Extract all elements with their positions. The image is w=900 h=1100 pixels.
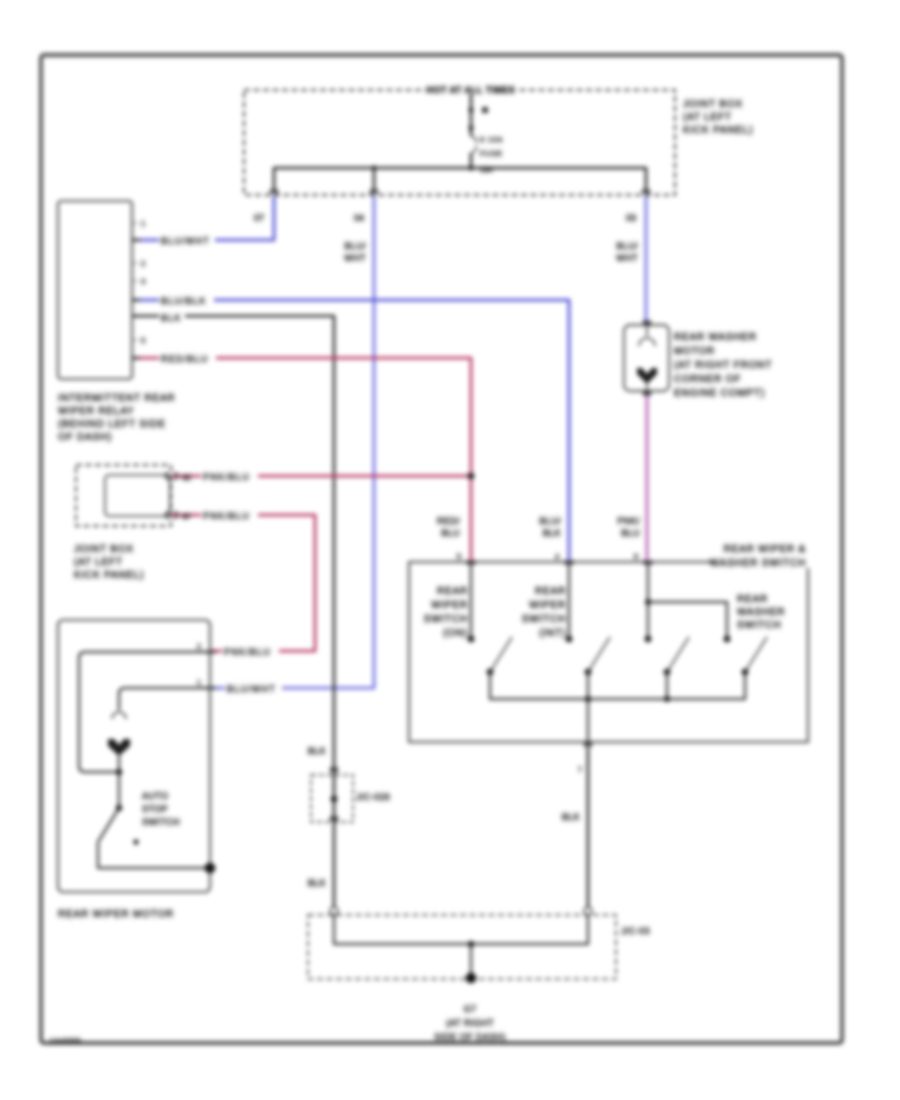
J/C-03 junction node: [468, 941, 474, 947]
bus junction nodes: [585, 696, 591, 702]
connector switch pin 2: [566, 560, 573, 565]
junction node bus/fuse: [468, 165, 473, 170]
svg-text:PNK/BLU: PNK/BLU: [203, 472, 250, 482]
svg-text:(INT): (INT): [539, 628, 566, 639]
svg-text:RED/BLU: RED/BLU: [161, 354, 208, 364]
wire PNK washer motor to switch: [646, 394, 649, 562]
svg-text:BLU: BLU: [621, 528, 640, 538]
J/C-03 dashed box: [308, 915, 616, 979]
svg-text:JOINT BOX: JOINT BOX: [74, 544, 134, 555]
svg-text:SIDE OF DASH): SIDE OF DASH): [434, 1032, 506, 1042]
svg-text:WIPER: WIPER: [529, 600, 566, 611]
svg-text:04: 04: [354, 213, 364, 223]
label BLK on relay wire: [159, 311, 185, 323]
rear wiper and washer switch box: [409, 562, 808, 742]
wire BLU/WHT main vertical to wiper motor: [210, 196, 374, 688]
svg-text:03: 03: [626, 213, 636, 223]
svg-text:SWITCH: SWITCH: [142, 817, 180, 827]
svg-text:REAR WIPER &: REAR WIPER &: [724, 544, 806, 555]
svg-text:WHT: WHT: [344, 253, 366, 263]
svg-text:6F: 6F: [182, 512, 191, 521]
switch internal wires: [471, 562, 727, 639]
svg-text:PNK/: PNK/: [617, 516, 640, 526]
wire RED/BLU from relay to switch: [132, 358, 471, 562]
wire: fuse feed vertical: [470, 94, 473, 168]
svg-text:REAR: REAR: [535, 586, 566, 597]
svg-text:BLU: BLU: [441, 528, 460, 538]
label BLU/WHT on relay wire: [159, 234, 215, 246]
connector switch pin 1: [468, 560, 475, 565]
svg-text:(ON): (ON): [443, 628, 468, 639]
svg-text:REAR WASHER: REAR WASHER: [674, 332, 757, 343]
svg-text:1: 1: [141, 219, 145, 228]
svg-text:BLK: BLK: [308, 746, 326, 756]
joint box J/B top (dashed, at left kick panel): [244, 90, 675, 195]
auto stop open contact: [133, 839, 138, 844]
svg-text:MOTOR: MOTOR: [674, 346, 715, 357]
svg-text:2: 2: [141, 259, 145, 268]
svg-text:8 10A: 8 10A: [480, 137, 503, 144]
connector at joint box pin 07: [271, 189, 278, 194]
connector at joint box pin 03: [643, 189, 650, 194]
connector joint box 2 pin A: [166, 473, 178, 480]
wire BLU/BLK relay to switch: [132, 300, 569, 562]
motor pin ticks: [205, 652, 216, 688]
connector joint box 2 pin B: [166, 512, 178, 519]
J/C-026 node: [331, 796, 338, 803]
svg-text:4: 4: [555, 552, 559, 561]
svg-text:WASHER SWITCH: WASHER SWITCH: [710, 558, 806, 569]
intermittent rear wiper relay box: [58, 201, 132, 379]
svg-text:KICK PANEL): KICK PANEL): [74, 570, 144, 581]
connector at joint box pin 04: [371, 189, 378, 194]
svg-text:PNK/BLU: PNK/BLU: [224, 647, 271, 657]
junction node RED/BLU / PNK branch: [468, 473, 475, 480]
svg-text:BLU/: BLU/: [616, 241, 638, 251]
motor case ground node: [205, 863, 216, 874]
svg-text:(AT RIGHT FRONT: (AT RIGHT FRONT: [674, 360, 772, 371]
svg-text:(AT RIGHT: (AT RIGHT: [446, 1018, 494, 1028]
connector switch pin 3: [645, 560, 652, 565]
svg-text:SWITCH: SWITCH: [737, 620, 781, 631]
svg-text:(AT LEFT: (AT LEFT: [74, 557, 123, 568]
svg-text:J/C-026: J/C-026: [356, 792, 390, 802]
node motor/park junction: [116, 769, 122, 775]
switch blades: [490, 637, 767, 672]
svg-text:G7: G7: [464, 1004, 477, 1014]
svg-text:2: 2: [197, 642, 201, 651]
svg-text:3: 3: [141, 277, 145, 286]
svg-text:WASHER: WASHER: [737, 607, 785, 618]
connector washer motor bottom: [644, 391, 651, 396]
J/C-026 dashed box: [311, 775, 353, 822]
svg-text:SWITCH: SWITCH: [424, 614, 468, 625]
svg-text:6: 6: [634, 552, 638, 561]
page border frame: [41, 55, 842, 1043]
joint box 2 inner bus box: [105, 475, 170, 516]
label BLU/WHT on motor feed wire: [225, 682, 282, 694]
svg-text:J/C-03: J/C-03: [621, 926, 650, 936]
svg-text:AUTO: AUTO: [142, 791, 168, 801]
node on feed wire 2: [468, 125, 473, 130]
washer branch junction: [645, 599, 651, 605]
svg-text:6E: 6E: [182, 473, 191, 482]
wire BLU/WHT relay to joint box: [132, 196, 274, 240]
svg-text:RED/: RED/: [437, 516, 460, 526]
connector washer motor top: [644, 320, 651, 325]
label RED/BLU on relay wire: [159, 352, 216, 364]
relay pin ticks: [132, 240, 140, 358]
svg-text:WIPER RELAY: WIPER RELAY: [58, 406, 134, 417]
svg-text:BLU/: BLU/: [344, 241, 366, 251]
svg-text:(AT LEFT: (AT LEFT: [683, 112, 732, 123]
svg-text:WIPER: WIPER: [431, 600, 468, 611]
ground terminal node G7: [466, 973, 477, 984]
blade terminals: [487, 669, 494, 676]
auto stop switch blade: [98, 808, 210, 868]
svg-text:REAR: REAR: [737, 594, 768, 605]
rear wiper motor box: [58, 620, 210, 892]
switch box label: [710, 540, 810, 569]
svg-text:5: 5: [457, 552, 461, 561]
motor internal park feed path: [79, 652, 210, 772]
svg-text:INTERMITTENT REAR: INTERMITTENT REAR: [58, 393, 175, 404]
svg-text:BLU/WHT: BLU/WHT: [227, 684, 276, 694]
svg-text:HOT AT ALL TIMES: HOT AT ALL TIMES: [427, 85, 515, 95]
svg-text:BLU/BLK: BLU/BLK: [161, 296, 206, 306]
label BLU/BLK on relay wire: [159, 294, 214, 306]
svg-text:FUSE: FUSE: [480, 151, 503, 158]
svg-text:REAR: REAR: [437, 586, 468, 597]
wire: bus inside joint box: [274, 168, 646, 190]
connector switch output: [585, 742, 592, 747]
motor connector chevron: [112, 712, 126, 719]
svg-text:SWITCH: SWITCH: [522, 614, 566, 625]
svg-text:OF DASH): OF DASH): [58, 432, 112, 443]
wire PNK/BLU joint box branch A: [171, 475, 471, 478]
motor internal run path: [119, 688, 210, 808]
switch common bus: [490, 672, 745, 742]
wire BLK switch to J/C-03: [587, 747, 590, 908]
svg-text:KICK PANEL): KICK PANEL): [683, 125, 753, 136]
wire BLU/WHT to rear washer motor: [645, 196, 648, 322]
label PNK/BLU on motor feed wire: [222, 645, 279, 657]
connector J/C-026 top: [331, 767, 338, 772]
fuse F8 symbol: [471, 136, 476, 153]
switch contacts: [468, 636, 475, 643]
svg-text:(BEHIND LEFT SIDE: (BEHIND LEFT SIDE: [58, 419, 166, 430]
svg-text:BLK: BLK: [308, 878, 326, 888]
svg-text:BLK: BLK: [562, 812, 580, 822]
svg-text:ENGINE COMPT): ENGINE COMPT): [674, 388, 765, 399]
washer motor internals: [646, 325, 648, 391]
joint box 2 dashed: [76, 465, 171, 526]
svg-text:BLU/WHT: BLU/WHT: [161, 236, 210, 246]
svg-text:1A4069: 1A4069: [50, 1038, 81, 1045]
connector J/C-026 bottom: [331, 816, 338, 821]
connector ring J/C-03 right: [584, 907, 592, 915]
label HOT AT ALL TIMES: [426, 83, 516, 96]
svg-text:07: 07: [254, 213, 264, 223]
J/C-03 internal wires: [334, 915, 588, 978]
node on feed wire: [468, 107, 473, 112]
wire BLK from relay down to J/C-03: [132, 316, 334, 908]
svg-text:PNK/BLU: PNK/BLU: [203, 511, 250, 521]
junction node bus/left drop: [371, 165, 376, 170]
connector ring J/C-03 left: [330, 907, 338, 915]
svg-text:5: 5: [141, 336, 145, 345]
svg-text:1: 1: [197, 678, 201, 687]
svg-text:CORNER OF: CORNER OF: [674, 374, 741, 385]
washer motor M symbol: [637, 368, 657, 384]
node auto stop common: [116, 805, 122, 811]
svg-text:REAR WIPER MOTOR: REAR WIPER MOTOR: [58, 909, 174, 920]
svg-text:BLU/: BLU/: [539, 516, 561, 526]
svg-text:STOP: STOP: [142, 804, 168, 814]
wiper motor M symbol: [108, 739, 130, 756]
svg-text:JOINT BOX: JOINT BOX: [683, 99, 743, 110]
svg-text:BLK: BLK: [161, 313, 182, 323]
tap mark beside node: [482, 107, 488, 113]
svg-text:BLK: BLK: [543, 528, 561, 538]
svg-text:7: 7: [578, 765, 582, 774]
wire PNK/BLU joint box branch B to wiper motor: [171, 515, 315, 651]
rear washer motor box: [624, 325, 669, 391]
svg-text:WHT: WHT: [616, 253, 638, 263]
